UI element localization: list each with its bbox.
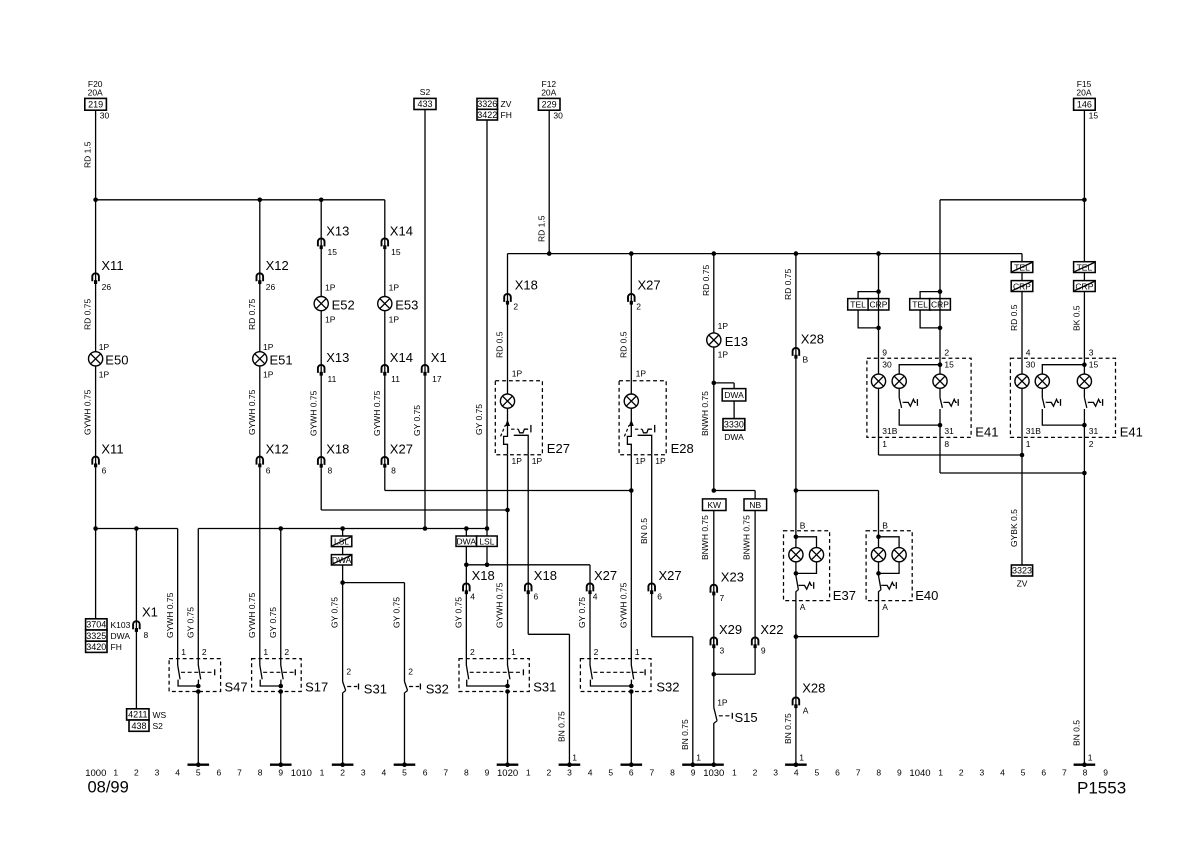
svg-text:9: 9	[897, 767, 902, 777]
wire label RD 1.5	[83, 141, 93, 168]
svg-text:X18: X18	[534, 568, 557, 583]
connector X11 pin 26	[92, 258, 123, 292]
connector X27 pin 4	[587, 568, 617, 602]
switch S31 contact block (pins 2/1)	[459, 647, 556, 695]
svg-text:DWA: DWA	[724, 432, 744, 442]
svg-text:X18: X18	[515, 278, 538, 293]
lamp E51 with pin labels 1P	[253, 342, 293, 380]
svg-text:2: 2	[346, 667, 351, 677]
svg-text:5: 5	[196, 767, 201, 777]
node junction S2 column end	[423, 526, 428, 531]
svg-text:E28: E28	[671, 441, 694, 456]
svg-text:2: 2	[594, 647, 599, 657]
svg-text:2: 2	[202, 647, 207, 657]
svg-text:RD 0.5: RD 0.5	[495, 331, 505, 358]
svg-text:15: 15	[328, 247, 338, 257]
svg-text:1: 1	[511, 647, 516, 657]
svg-text:X28: X28	[801, 331, 824, 346]
switch S47 (washer pump switch, pins 1/2)	[169, 647, 248, 695]
wire E28 right pin down to X27-6 (BN 0.5)	[651, 455, 653, 583]
connector X12 pin 26	[257, 258, 289, 292]
bus wire from F20 (horizontal, feeds X11/X12/X13/X14)	[96, 199, 385, 201]
svg-text:RD 0.75: RD 0.75	[783, 269, 793, 300]
wire from 3422 FH down (GY 0.75)	[486, 120, 488, 529]
connector X27 pin 2	[628, 278, 661, 312]
svg-text:1P: 1P	[635, 456, 646, 466]
svg-text:S2: S2	[153, 721, 164, 731]
svg-text:1: 1	[882, 439, 887, 449]
svg-text:DWA: DWA	[724, 390, 744, 400]
svg-text:GY 0.75: GY 0.75	[330, 597, 340, 628]
wire E41-left 30-feed down	[878, 254, 880, 359]
lamp E52 with pin labels 1P	[314, 283, 355, 325]
node junction LSL lower	[485, 563, 490, 568]
svg-text:RD 0.5: RD 0.5	[1009, 304, 1019, 331]
svg-text:GYBK 0.5: GYBK 0.5	[1009, 509, 1019, 547]
svg-text:6: 6	[423, 767, 428, 777]
svg-text:X11: X11	[101, 258, 123, 273]
wire X14-11 to X27-8 continues	[384, 456, 386, 468]
wire label GY 0.75 (X1 column)	[412, 405, 422, 436]
svg-text:433: 433	[417, 99, 432, 109]
svg-text:7: 7	[856, 767, 861, 777]
svg-text:3: 3	[155, 767, 160, 777]
svg-text:9: 9	[278, 767, 283, 777]
wire label BN 0.5 (E41-right)	[1072, 720, 1082, 746]
wire S31 column down (GY 0.75)	[342, 583, 344, 682]
svg-text:438: 438	[131, 721, 146, 731]
fuse F12 20A (circuit 229)	[538, 79, 563, 120]
svg-text:X18: X18	[472, 568, 495, 583]
wire F20 pin30 down (RD 1.5)	[95, 110, 97, 200]
connector X14 pin 15	[382, 223, 413, 257]
node junction X12 branch	[258, 198, 263, 203]
ground S31	[332, 762, 354, 767]
wire label BK 0.5 (F15 feed)	[1072, 305, 1082, 331]
option box NB	[744, 499, 767, 511]
svg-text:9: 9	[691, 767, 696, 777]
wire X18-2 branch from bus	[507, 254, 509, 394]
svg-text:E27: E27	[547, 441, 570, 456]
svg-text:RD 1.5: RD 1.5	[83, 141, 93, 168]
svg-text:4: 4	[1000, 767, 1005, 777]
wire label RD 1.5 (F12)	[536, 215, 546, 242]
wire S15 to ground	[713, 723, 715, 764]
svg-text:X28: X28	[802, 680, 825, 695]
wire X1-8 drop down	[135, 529, 137, 622]
sheet date 08/99	[88, 779, 129, 797]
svg-text:X14: X14	[390, 350, 413, 365]
svg-text:TEL: TEL	[912, 300, 928, 310]
svg-text:4: 4	[794, 767, 799, 777]
svg-text:1: 1	[635, 647, 640, 657]
svg-text:219: 219	[88, 100, 103, 110]
svg-text:1P: 1P	[389, 283, 400, 293]
svg-text:BK 0.5: BK 0.5	[1072, 305, 1082, 331]
wire X27-4 to S32 pin2 (GY 0.75)	[589, 583, 591, 658]
svg-text:9: 9	[882, 347, 887, 357]
node junction DWA lower	[464, 563, 469, 568]
svg-text:9: 9	[761, 646, 766, 656]
wire label GYBK 0.5	[1009, 509, 1019, 547]
connector X1 pin 17	[422, 350, 447, 384]
svg-text:6: 6	[1041, 767, 1046, 777]
wire E41-left pin1 to ZV column	[879, 437, 1023, 455]
wire label RD 0.5 (E27)	[495, 331, 505, 358]
switch S32 (pin 2)	[404, 667, 448, 697]
svg-text:1040: 1040	[909, 768, 930, 779]
svg-text:30: 30	[553, 110, 563, 120]
svg-text:8: 8	[944, 439, 949, 449]
wire label GY 0.75 (S17-2)	[268, 607, 278, 638]
option box 3323 ZV	[1011, 565, 1032, 588]
svg-text:X1: X1	[142, 604, 158, 619]
svg-text:5: 5	[1021, 767, 1026, 777]
connector X12 pin 6	[257, 442, 289, 476]
svg-text:GYWH 0.75: GYWH 0.75	[372, 390, 382, 436]
connector X18 pin 2	[504, 278, 538, 312]
wire X27-6 jog to ground column	[652, 583, 693, 763]
svg-text:7: 7	[237, 767, 242, 777]
crossed option boxes TEL/CRP (E41-right 30-feed)	[1011, 254, 1033, 292]
wire E41-right pin1 down to 3323 (GYBK 0.5)	[1021, 437, 1023, 565]
connector X13 pin 11	[318, 350, 349, 384]
wire E40-A return to X28 column	[796, 601, 879, 637]
svg-text:DWA: DWA	[457, 536, 477, 546]
option boxes 3326 ZV / 3422 FH	[477, 98, 512, 120]
svg-text:15: 15	[391, 247, 401, 257]
wire E41-right pin2 to ground (BN 0.5)	[1083, 437, 1085, 763]
svg-text:RD 0.5: RD 0.5	[618, 331, 628, 358]
svg-text:2: 2	[1089, 439, 1094, 449]
svg-text:8: 8	[876, 767, 881, 777]
node junction E40 return	[794, 634, 799, 639]
svg-text:ZV: ZV	[501, 99, 512, 109]
svg-text:1: 1	[320, 767, 325, 777]
svg-text:GY 0.75: GY 0.75	[577, 597, 587, 628]
svg-text:2: 2	[546, 767, 551, 777]
wire X13-11 to X18-8 continues	[320, 456, 322, 468]
svg-text:5: 5	[402, 767, 407, 777]
wire S17 to ground	[280, 692, 282, 764]
svg-text:P1553: P1553	[1077, 779, 1126, 798]
svg-text:3422: 3422	[477, 110, 497, 120]
wire label GYWH 0.75 (E50)	[83, 389, 93, 435]
wire S32 to ground	[403, 693, 405, 764]
option box KW	[703, 499, 727, 511]
node junction S17-2 drop	[278, 526, 283, 531]
switch S17 (pins 1/2)	[252, 647, 329, 695]
svg-text:X27: X27	[390, 442, 413, 457]
wire E53 to X14-11	[384, 311, 386, 457]
option boxes 3704 K103 / 3325 DWA / 3420 FH	[86, 619, 131, 653]
wire X27-8 down and right to E28 column	[385, 468, 632, 490]
svg-text:15: 15	[1089, 359, 1099, 369]
svg-text:1: 1	[263, 647, 268, 657]
svg-text:X23: X23	[721, 569, 744, 584]
wire X18-8 down and right to E27 column	[321, 468, 507, 510]
svg-text:3330: 3330	[724, 420, 744, 430]
svg-text:3: 3	[773, 767, 778, 777]
svg-text:KW: KW	[707, 500, 721, 510]
svg-text:1: 1	[938, 767, 943, 777]
wire X27 branch from bus	[630, 254, 632, 394]
wire label BNWH 0.75 (E13)	[700, 391, 710, 436]
wire label GY 0.75 (X18-4)	[453, 597, 463, 628]
lamp cluster E41 left (pins 9/2 - 1/8)	[867, 347, 999, 448]
wire label BNWH 0.75 (NB)	[741, 515, 751, 560]
svg-text:S32: S32	[656, 680, 679, 695]
svg-text:2: 2	[959, 767, 964, 777]
svg-text:E41: E41	[975, 425, 998, 440]
svg-text:BN 0.5: BN 0.5	[639, 518, 649, 544]
svg-text:1P: 1P	[636, 368, 647, 378]
svg-text:17: 17	[432, 374, 442, 384]
wire X28-A to ground (BN 0.75)	[795, 697, 797, 763]
wire lower rail to X18-4 and X27-4 columns	[466, 565, 590, 583]
ground S17	[270, 762, 292, 767]
connector X18 pin 6	[525, 568, 557, 602]
svg-text:11: 11	[391, 374, 400, 384]
wire bus to X11-26 to E50 (RD 0.75)	[95, 200, 97, 352]
svg-text:1P: 1P	[325, 283, 336, 293]
node junction F15/E41 branch	[1082, 198, 1087, 203]
wire X1-8 to box 4211	[135, 621, 137, 709]
svg-text:11: 11	[328, 374, 337, 384]
wire KW-NB top link	[714, 491, 755, 499]
wire 15-feed into E41-left	[939, 292, 941, 359]
svg-text:BNWH 0.75: BNWH 0.75	[741, 515, 751, 560]
wire E52 to X13-11	[320, 311, 322, 457]
svg-text:BN 0.75: BN 0.75	[680, 719, 690, 750]
svg-text:30: 30	[100, 110, 110, 120]
svg-text:X27: X27	[659, 568, 682, 583]
wire E28 left pin down to junction	[630, 455, 632, 491]
wire label RD 0.5 marker E27	[0, 0, 1, 1]
wire S32-2 column X27-4	[589, 582, 591, 584]
svg-text:K103: K103	[111, 620, 131, 630]
svg-text:GYWH 0.75: GYWH 0.75	[165, 592, 175, 638]
svg-text:E40: E40	[915, 588, 938, 603]
svg-text:2: 2	[470, 647, 475, 657]
svg-text:FH: FH	[501, 110, 512, 120]
svg-text:5: 5	[815, 767, 820, 777]
svg-text:S15: S15	[735, 710, 758, 725]
svg-text:WS: WS	[153, 710, 167, 720]
svg-text:1P: 1P	[99, 342, 110, 352]
switch S32 contact block (pins 2/1)	[580, 647, 679, 695]
svg-text:1P: 1P	[325, 314, 336, 324]
svg-text:GY 0.75: GY 0.75	[392, 597, 402, 628]
wire label RD 0.5 (E41-right)	[1009, 304, 1019, 331]
svg-text:1: 1	[696, 753, 701, 763]
svg-text:2: 2	[753, 767, 758, 777]
svg-text:6: 6	[657, 592, 662, 602]
coordinate scale 1000-1049	[85, 767, 1108, 778]
wire X18-6 jog to ground column	[528, 583, 569, 763]
svg-text:8: 8	[391, 466, 396, 476]
wire label RD 0.75 (X11)	[83, 299, 93, 330]
svg-text:1: 1	[1026, 439, 1031, 449]
sheet number P1553	[1077, 779, 1126, 798]
svg-text:RD 0.75: RD 0.75	[83, 299, 93, 330]
svg-text:5: 5	[608, 767, 613, 777]
svg-text:3: 3	[361, 767, 366, 777]
svg-text:S17: S17	[305, 680, 328, 695]
wire label GY 0.75 (X27-4)	[577, 597, 587, 628]
svg-text:ZV: ZV	[1017, 578, 1028, 588]
wire label RD 0.5 (E28)	[618, 331, 628, 358]
svg-text:RD 1.5: RD 1.5	[536, 215, 546, 242]
wire label GYWH 0.75 (X13)	[308, 390, 318, 436]
svg-text:S31: S31	[364, 682, 387, 697]
node junction KW/NB split	[712, 488, 717, 493]
svg-text:6: 6	[629, 767, 634, 777]
svg-text:BN 0.5: BN 0.5	[1072, 720, 1082, 746]
wire label GYWH 0.75 (S31-1)	[495, 582, 505, 628]
svg-text:6: 6	[534, 592, 539, 602]
svg-text:1: 1	[1088, 753, 1093, 763]
svg-text:BNWH 0.75: BNWH 0.75	[700, 515, 710, 560]
svg-text:4: 4	[588, 767, 593, 777]
svg-text:9: 9	[485, 767, 490, 777]
svg-text:7: 7	[650, 767, 655, 777]
wire E28 column down to S32 pin1 (GYWH 0.75)	[630, 491, 632, 659]
lamp cluster E41 right (pins 4/3 - 1/2)	[1010, 347, 1142, 448]
wire branch to E40 pin B	[796, 491, 879, 531]
svg-text:E50: E50	[105, 353, 128, 368]
svg-text:E52: E52	[332, 298, 355, 313]
svg-text:30: 30	[1026, 359, 1036, 369]
svg-text:8: 8	[1083, 767, 1088, 777]
svg-text:6: 6	[217, 767, 222, 777]
lamp unit E40 (reading light) with switch	[866, 520, 938, 612]
wire E13 down (BNWH 0.75)	[713, 347, 715, 490]
svg-text:RD 0.75: RD 0.75	[701, 265, 711, 296]
svg-text:2: 2	[284, 647, 289, 657]
wire E13 branch from bus (RD 0.75)	[713, 254, 715, 334]
svg-text:2: 2	[340, 767, 345, 777]
wire label GY 0.75 (ZV column)	[474, 404, 484, 435]
svg-text:1P: 1P	[99, 370, 110, 380]
wire DWA to 3330	[733, 401, 735, 419]
crossed option box DWA	[331, 547, 351, 565]
wire E41-left 15-feed down	[939, 200, 941, 292]
svg-text:8: 8	[258, 767, 263, 777]
wire E27 left pin down to junction	[507, 455, 509, 510]
connector X27 pin 6	[648, 568, 681, 602]
node junction X13 branch	[319, 198, 324, 203]
connector X1 pin 8	[133, 604, 158, 640]
wire label BN 0.75 (X27-6 ground)	[680, 719, 690, 750]
wire label GYWH 0.75 (S32-1)	[618, 582, 628, 628]
connector X11 pin 6	[92, 442, 123, 476]
svg-text:TEL: TEL	[850, 300, 866, 310]
svg-text:GYWH 0.75: GYWH 0.75	[618, 582, 628, 628]
ground S31 block	[497, 762, 519, 767]
wire E41-left pin8 to F15 column	[940, 437, 1084, 473]
svg-text:3: 3	[720, 646, 725, 656]
wire label GY 0.75 (S32)	[392, 597, 402, 628]
svg-text:B: B	[800, 520, 806, 530]
wire DWA column to X18-4	[465, 565, 467, 583]
svg-text:3: 3	[567, 767, 572, 777]
node junction F12/bus	[547, 251, 552, 256]
connector X14 pin 11	[382, 350, 413, 384]
wire label BNWH 0.75 (KW)	[700, 515, 710, 560]
svg-text:20A: 20A	[541, 87, 556, 97]
svg-text:X1: X1	[431, 350, 447, 365]
lamp E53 with pin labels 1P	[378, 283, 419, 325]
svg-text:1020: 1020	[497, 768, 518, 779]
svg-text:LSL: LSL	[479, 536, 494, 546]
node junction S15 feed	[712, 672, 717, 677]
svg-text:1P: 1P	[532, 456, 543, 466]
wire horizontal E50 column to S47 pin1	[96, 529, 178, 659]
wire S17-2 drop	[280, 529, 282, 659]
option box LSL (steering column switch)	[477, 529, 498, 547]
wire label GYWH 0.75 (S17-1)	[247, 592, 257, 638]
svg-text:X12: X12	[266, 442, 289, 457]
node junction X1-8 drop	[134, 526, 139, 531]
svg-text:26: 26	[102, 282, 112, 292]
lamp E13 (interior light) with pin labels 1P	[707, 321, 748, 359]
bus wire F15 branch to E41 left (horizontal)	[940, 199, 1084, 201]
svg-text:GY 0.75: GY 0.75	[474, 404, 484, 435]
fuse F20 20A (circuit 219)	[85, 79, 110, 120]
wire X14 branch down	[384, 200, 386, 297]
fuse F15 20A (circuit 146)	[1074, 79, 1099, 120]
svg-text:4: 4	[1026, 347, 1031, 357]
svg-text:1P: 1P	[389, 314, 400, 324]
wire S47 to ground	[197, 692, 199, 764]
wire label GYWH 0.75 (E51)	[247, 389, 257, 435]
svg-text:8: 8	[670, 767, 675, 777]
svg-text:1: 1	[526, 767, 531, 777]
svg-text:31: 31	[1089, 426, 1099, 436]
switch S15 (pin 1P)	[714, 698, 758, 726]
wire label GYWH 0.75 (S47-1)	[165, 592, 175, 638]
ground E41-right with pin 1	[1074, 753, 1096, 768]
lamp E50 with pin labels 1P	[89, 342, 129, 380]
svg-text:BN 0.75: BN 0.75	[783, 713, 793, 744]
svg-text:X11: X11	[101, 442, 123, 457]
wire branch to S32 switch	[343, 583, 405, 682]
wire label BN 0.75 (X18-6 ground)	[557, 711, 567, 742]
node junction E27 column pickup	[505, 508, 510, 513]
wire S31 block to ground	[507, 692, 509, 764]
svg-text:X14: X14	[390, 223, 413, 238]
svg-text:4: 4	[593, 592, 598, 602]
node junction pin1 rail	[1020, 453, 1025, 458]
svg-text:30: 30	[882, 359, 892, 369]
svg-text:08/99: 08/99	[88, 779, 129, 797]
ground X18-6 with pin 1	[559, 753, 581, 768]
svg-text:B: B	[882, 520, 888, 530]
node junction E41-left branch	[876, 251, 881, 256]
svg-text:FH: FH	[111, 642, 122, 652]
svg-text:1P: 1P	[718, 350, 729, 360]
wire label RD 0.5 marker E28	[0, 0, 1, 1]
svg-text:E53: E53	[395, 298, 418, 313]
svg-text:GYWH 0.75: GYWH 0.75	[83, 389, 93, 435]
option box DWA (interval wipe)	[456, 529, 477, 547]
switch S31 (pin 2)	[343, 667, 387, 697]
ground S47	[187, 762, 209, 767]
svg-text:1P: 1P	[655, 456, 666, 466]
wire F15 down	[1083, 110, 1085, 262]
ground shared (X27-6 / S15) with pin 1	[682, 753, 724, 768]
